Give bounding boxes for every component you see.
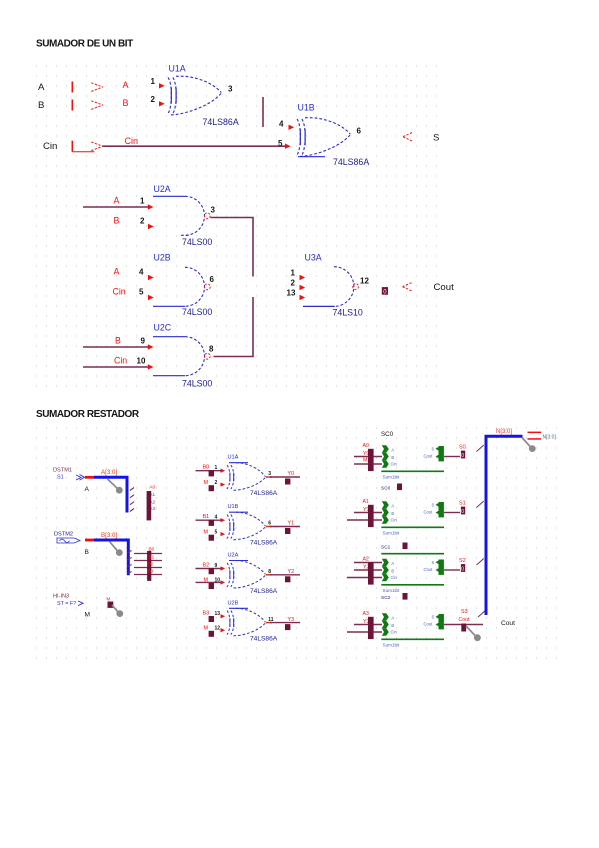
svg-text:S: S xyxy=(432,615,435,620)
svg-text:Cout: Cout xyxy=(424,510,434,515)
svg-text:74LS10: 74LS10 xyxy=(333,308,363,318)
svg-text:74LS86A: 74LS86A xyxy=(250,490,278,497)
svg-text:Cout: Cout xyxy=(424,567,434,572)
svg-text:A: A xyxy=(123,80,129,90)
wire Y0 output xyxy=(266,476,272,478)
svg-text:1: 1 xyxy=(291,269,296,278)
wire Y1 output xyxy=(266,526,272,528)
probe box value 0 xyxy=(382,287,388,295)
block Sum1bit U5 (bit 1) xyxy=(354,512,382,514)
svg-text:A: A xyxy=(391,448,394,453)
svg-text:B0: B0 xyxy=(203,465,210,471)
svg-text:DSTM2: DSTM2 xyxy=(54,532,73,538)
wire B to U2C pin9 xyxy=(83,346,148,348)
svg-text:Sum1bit: Sum1bit xyxy=(383,642,401,647)
wire Cin to U2C pin10 xyxy=(83,366,148,368)
svg-text:2: 2 xyxy=(291,279,296,288)
svg-text:B3: B3 xyxy=(203,610,210,616)
bus A[3:0] xyxy=(94,477,127,512)
svg-text:B: B xyxy=(391,569,394,574)
svg-text:S1: S1 xyxy=(57,475,64,481)
wire Y3 output xyxy=(266,622,272,624)
svg-text:B1: B1 xyxy=(149,555,155,560)
svg-text:Y0: Y0 xyxy=(288,471,295,477)
svg-text:13: 13 xyxy=(287,289,296,298)
svg-text:B: B xyxy=(38,100,44,111)
svg-text:5: 5 xyxy=(215,529,218,535)
svg-text:M: M xyxy=(107,597,111,602)
bus B[3:0] xyxy=(94,540,128,575)
svg-text:Sum1bit: Sum1bit xyxy=(383,530,401,535)
bus entries B0-B3 xyxy=(134,553,162,555)
svg-text:Cout: Cout xyxy=(424,454,434,459)
svg-text:U1A: U1A xyxy=(228,455,239,461)
svg-text:12: 12 xyxy=(360,277,369,286)
wire A to U2A pin1 xyxy=(83,206,148,208)
svg-text:Cout: Cout xyxy=(459,617,471,623)
wire S0 output xyxy=(444,456,460,458)
svg-text:N[3:0]: N[3:0] xyxy=(543,434,557,440)
svg-text:2: 2 xyxy=(151,95,156,104)
bus entries A0-A3 xyxy=(130,488,134,491)
svg-text:M: M xyxy=(204,480,209,486)
svg-text:N[3:0]: N[3:0] xyxy=(496,429,512,435)
svg-text:B0: B0 xyxy=(149,547,155,552)
svg-text:B[3:0]: B[3:0] xyxy=(101,532,117,539)
svg-text:Y3: Y3 xyxy=(288,617,295,623)
probe Cout xyxy=(466,626,476,636)
svg-text:3: 3 xyxy=(228,85,233,94)
svg-text:B2: B2 xyxy=(148,562,154,567)
wire B1 xyxy=(196,519,222,521)
svg-text:Cin: Cin xyxy=(391,462,398,467)
svg-text:1: 1 xyxy=(140,197,145,206)
svg-text:A1: A1 xyxy=(363,499,369,505)
wire M xyxy=(196,581,222,583)
probe NOUT xyxy=(522,438,531,448)
svg-text:S: S xyxy=(432,503,435,508)
probe on A bus xyxy=(108,479,118,489)
svg-text:U1B: U1B xyxy=(228,504,239,510)
svg-text:8: 8 xyxy=(209,345,214,354)
wire Cin to U1B pin5 xyxy=(103,145,286,147)
svg-text:5: 5 xyxy=(139,288,144,297)
svg-text:ST = F?: ST = F? xyxy=(57,601,76,607)
svg-text:U1A: U1A xyxy=(169,64,186,74)
svg-text:Cout: Cout xyxy=(501,620,515,627)
svg-text:M: M xyxy=(204,529,209,535)
svg-text:SC1: SC1 xyxy=(381,545,391,551)
wire bracket U2A/U2C outputs to U3A xyxy=(211,218,254,357)
svg-text:S0: S0 xyxy=(459,444,466,450)
bus entry S0 xyxy=(477,445,484,452)
svg-text:U2A: U2A xyxy=(228,553,239,559)
svg-text:B: B xyxy=(391,623,394,628)
svg-text:74LS86A: 74LS86A xyxy=(250,588,278,595)
svg-text:S: S xyxy=(433,133,439,144)
svg-text:M: M xyxy=(363,457,367,463)
svg-text:2: 2 xyxy=(215,480,218,486)
svg-text:Cin: Cin xyxy=(391,518,398,523)
svg-text:A0: A0 xyxy=(149,484,155,489)
svg-text:13: 13 xyxy=(215,611,221,617)
svg-text:SC0: SC0 xyxy=(381,486,391,492)
grid dots schematic 2 xyxy=(36,428,557,658)
svg-text:A3: A3 xyxy=(363,611,369,617)
svg-text:A: A xyxy=(391,616,394,621)
svg-text:SC2: SC2 xyxy=(381,595,391,601)
svg-text:6: 6 xyxy=(357,127,362,136)
block Sum1bit U6 (bit 2) xyxy=(354,562,382,564)
wire S2 output xyxy=(444,569,460,571)
svg-text:B: B xyxy=(115,336,121,346)
block Sum1bit U7 (bit 3) xyxy=(354,624,382,626)
svg-text:B1: B1 xyxy=(203,514,210,520)
svg-text:Y1: Y1 xyxy=(288,521,295,527)
block Sum1bit U4 (bit 0) xyxy=(354,456,382,458)
svg-text:0: 0 xyxy=(461,509,464,515)
svg-text:A: A xyxy=(114,196,120,206)
svg-text:A: A xyxy=(391,561,394,566)
svg-text:S: S xyxy=(432,447,435,452)
svg-text:Cin: Cin xyxy=(113,287,126,297)
svg-text:U2B: U2B xyxy=(154,253,171,263)
svg-text:Y2: Y2 xyxy=(288,569,295,575)
svg-text:HI-IN3: HI-IN3 xyxy=(53,594,69,600)
port S output xyxy=(403,133,412,141)
wire B2 xyxy=(196,568,222,570)
svg-text:Cout: Cout xyxy=(434,282,455,293)
svg-text:Cin: Cin xyxy=(391,630,398,635)
port NOUT xyxy=(528,432,542,434)
svg-text:74LS86A: 74LS86A xyxy=(250,540,278,547)
svg-text:10: 10 xyxy=(137,357,146,366)
svg-text:B: B xyxy=(391,455,394,460)
svg-text:74LS86A: 74LS86A xyxy=(250,636,278,643)
svg-text:A[3:0]: A[3:0] xyxy=(101,469,117,476)
svg-text:M: M xyxy=(204,626,209,632)
svg-text:Cin: Cin xyxy=(125,136,139,146)
svg-text:U1B: U1B xyxy=(298,103,315,113)
svg-text:Cin: Cin xyxy=(114,356,127,366)
svg-text:SC0: SC0 xyxy=(381,431,394,438)
svg-text:B: B xyxy=(114,216,120,226)
svg-text:U2A: U2A xyxy=(154,184,171,194)
svg-text:SUMADOR DE UN BIT: SUMADOR DE UN BIT xyxy=(36,39,133,50)
port Cout output xyxy=(403,283,412,291)
svg-text:74LS00: 74LS00 xyxy=(182,379,212,389)
svg-text:Sum1bit: Sum1bit xyxy=(383,588,401,593)
svg-text:Cin: Cin xyxy=(391,575,398,580)
bus N[3:0] output xyxy=(486,436,523,615)
svg-text:A0: A0 xyxy=(363,443,369,449)
probe on B bus xyxy=(110,542,118,552)
svg-text:B: B xyxy=(391,511,394,516)
wire Y2 output xyxy=(266,574,272,576)
svg-text:A: A xyxy=(391,504,394,509)
svg-text:A: A xyxy=(85,486,90,493)
svg-text:0: 0 xyxy=(461,453,464,459)
wire B0 xyxy=(196,470,222,472)
svg-text:U3A: U3A xyxy=(305,253,322,263)
svg-text:B: B xyxy=(85,549,90,556)
svg-text:S: S xyxy=(432,560,435,565)
svg-text:DSTM1: DSTM1 xyxy=(53,468,72,474)
svg-text:A: A xyxy=(114,267,120,277)
svg-text:1: 1 xyxy=(151,77,156,86)
svg-text:12: 12 xyxy=(215,626,221,632)
wire S1 output xyxy=(444,512,460,514)
svg-text:U2C: U2C xyxy=(154,323,172,333)
svg-text:U2B: U2B xyxy=(228,600,239,606)
svg-text:Cout: Cout xyxy=(424,622,434,627)
svg-text:74LS86A: 74LS86A xyxy=(333,157,369,167)
svg-text:74LS86A: 74LS86A xyxy=(203,117,239,127)
svg-text:3: 3 xyxy=(211,206,216,215)
svg-text:B2: B2 xyxy=(203,563,210,569)
svg-text:A2: A2 xyxy=(363,557,369,563)
svg-text:A: A xyxy=(38,82,45,93)
bus entry S2 xyxy=(477,559,484,566)
wire S3 output xyxy=(444,624,483,626)
svg-text:4: 4 xyxy=(279,120,284,129)
svg-text:S1: S1 xyxy=(459,500,466,506)
svg-text:6: 6 xyxy=(210,275,215,284)
grid dots schematic 1 xyxy=(36,66,437,386)
svg-text:Cin: Cin xyxy=(43,141,57,152)
svg-text:S3: S3 xyxy=(461,609,468,615)
svg-text:74LS00: 74LS00 xyxy=(182,307,212,317)
svg-text:0: 0 xyxy=(461,566,464,572)
bus entry S1 xyxy=(477,501,484,508)
svg-text:9: 9 xyxy=(141,337,146,346)
wire vertical stub right of U1A xyxy=(262,97,264,127)
svg-text:B: B xyxy=(123,98,129,108)
svg-text:M: M xyxy=(85,612,91,619)
svg-text:2: 2 xyxy=(140,217,145,226)
svg-text:B3: B3 xyxy=(148,568,154,573)
svg-text:S2: S2 xyxy=(459,558,466,564)
svg-text:4: 4 xyxy=(139,268,144,277)
svg-text:SUMADOR RESTADOR: SUMADOR RESTADOR xyxy=(36,409,140,420)
svg-text:74LS00: 74LS00 xyxy=(182,237,212,247)
svg-text:Sum1bit: Sum1bit xyxy=(383,474,401,479)
